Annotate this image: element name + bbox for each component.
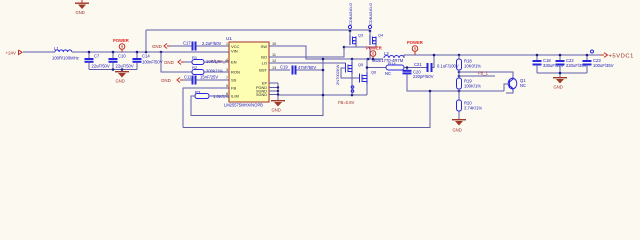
wire gnd to C17 bbox=[170, 45, 192, 47]
svg-text:11: 11 bbox=[272, 53, 276, 57]
wire C19 to SW node bbox=[296, 69, 323, 71]
capacitor C21 bbox=[414, 62, 459, 72]
wire L2 to output rail bbox=[404, 55, 600, 58]
svg-text:GND: GND bbox=[164, 60, 174, 65]
svg-text:C19: C19 bbox=[280, 65, 288, 70]
resistor R1 bbox=[192, 55, 233, 65]
svg-text:BO: BO bbox=[261, 55, 267, 60]
capacitor C7 bbox=[85, 52, 110, 70]
svg-text:VIN: VIN bbox=[231, 49, 238, 54]
port +24V bbox=[6, 50, 23, 55]
svg-text:BST: BST bbox=[259, 68, 267, 73]
capacitor C11 bbox=[184, 75, 218, 85]
transistor Q5 bbox=[346, 59, 364, 95]
svg-text:100R/100MHz: 100R/100MHz bbox=[52, 56, 79, 61]
svg-text:GND: GND bbox=[152, 44, 162, 49]
power port GND (SS cap) bbox=[161, 78, 183, 84]
svg-text:220pF/50V: 220pF/50V bbox=[413, 74, 434, 79]
svg-text:C10: C10 bbox=[118, 54, 126, 59]
svg-text:U1: U1 bbox=[226, 36, 232, 41]
capacitor C19 bbox=[280, 65, 316, 75]
svg-text:POWER: POWER bbox=[113, 38, 129, 43]
wire FB divider bottom loop bbox=[183, 91, 430, 128]
ground (R20) bbox=[452, 119, 466, 120]
resistor R2 bbox=[192, 65, 223, 75]
svg-text:LO: LO bbox=[262, 61, 267, 66]
svg-text:POWER: POWER bbox=[366, 46, 382, 51]
capacitor C18 bbox=[533, 55, 564, 73]
ground (floating top-left) bbox=[75, 0, 89, 15]
wire clamp bottoms bbox=[344, 46, 376, 48]
svg-text:POWER: POWER bbox=[407, 40, 423, 45]
inductor L1 bbox=[52, 46, 79, 61]
node marker (no-ERC) bbox=[591, 50, 594, 53]
node junctions center bbox=[277, 30, 372, 97]
wire gnd to R1 bbox=[184, 61, 192, 63]
resistor R3 bbox=[195, 90, 229, 99]
svg-text:FB=0.8V: FB=0.8V bbox=[338, 100, 355, 105]
transistor Q7 bbox=[508, 77, 526, 91]
transistor Q3 bbox=[350, 31, 363, 47]
power flag POWER (SW node) bbox=[366, 46, 382, 61]
svg-text:8: 8 bbox=[226, 92, 228, 96]
svg-text:GND: GND bbox=[272, 108, 281, 113]
svg-text:100uF/35V: 100uF/35V bbox=[593, 63, 614, 68]
svg-text:NC: NC bbox=[385, 71, 391, 76]
wire FB node to Q7 collector bbox=[459, 72, 513, 77]
svg-text:100nF/50V: 100nF/50V bbox=[142, 59, 163, 64]
wire BO pin bbox=[269, 47, 344, 57]
ground (input caps) bbox=[115, 71, 129, 72]
svg-text:CDBA540-G: CDBA540-G bbox=[368, 3, 373, 25]
svg-text:Q4: Q4 bbox=[378, 34, 383, 38]
svg-text:5: 5 bbox=[226, 84, 228, 88]
IC U1 LM25575 regulator bbox=[224, 36, 269, 107]
port +5VDC1 bbox=[600, 53, 634, 60]
svg-text:2N7002KW: 2N7002KW bbox=[335, 64, 340, 85]
svg-text:1: 1 bbox=[226, 42, 228, 46]
wire C21 to rail bbox=[432, 55, 434, 68]
svg-text:100K/1%: 100K/1% bbox=[464, 84, 481, 89]
svg-text:12: 12 bbox=[272, 59, 276, 63]
wire Q7 emitter bbox=[506, 91, 513, 93]
wire R3 to ILIM pin bbox=[209, 95, 229, 97]
wire R1 to EN pin bbox=[204, 61, 229, 63]
capacitor C22 bbox=[556, 55, 587, 73]
svg-text:C14: C14 bbox=[142, 54, 150, 59]
node junctions on input rail bbox=[88, 51, 163, 71]
svg-text:+24V: +24V bbox=[6, 50, 16, 55]
svg-text:Q3: Q3 bbox=[358, 34, 363, 38]
power flag POWER (input) bbox=[113, 38, 129, 52]
capacitor C10 bbox=[109, 52, 134, 70]
wire top clamp rail bbox=[146, 29, 370, 31]
svg-text:10: 10 bbox=[272, 42, 276, 46]
svg-text:Q5: Q5 bbox=[358, 63, 363, 67]
svg-text:GND: GND bbox=[161, 78, 171, 83]
wire input to L1 bbox=[23, 51, 55, 53]
svg-text:C21: C21 bbox=[414, 62, 422, 67]
capacitor C20 bbox=[403, 68, 505, 92]
wire C17 to VCC pin bbox=[196, 45, 229, 47]
svg-text:GND: GND bbox=[76, 10, 85, 15]
svg-text:SGND: SGND bbox=[256, 93, 267, 97]
svg-text:RON: RON bbox=[231, 70, 240, 75]
svg-text:NC: NC bbox=[520, 83, 526, 88]
wire output cap bottoms bbox=[537, 72, 587, 74]
svg-text:C7: C7 bbox=[94, 54, 100, 59]
svg-text:EN: EN bbox=[231, 60, 237, 65]
resistor R14 bbox=[367, 62, 404, 77]
power port GND (VCC bypass) bbox=[152, 44, 170, 50]
svg-text:GND: GND bbox=[453, 128, 462, 133]
svg-text:22uF/50V: 22uF/50V bbox=[116, 63, 134, 68]
wire input cap bottoms bbox=[89, 69, 137, 71]
wire SW node vertical bbox=[322, 59, 324, 116]
wire FB pin loop down bbox=[183, 88, 229, 128]
svg-text:C17: C17 bbox=[183, 41, 191, 46]
svg-text:R14: R14 bbox=[388, 62, 396, 67]
transistor Q6 bbox=[360, 59, 377, 95]
svg-text:C11: C11 bbox=[184, 75, 192, 80]
svg-text:FB: FB bbox=[231, 86, 236, 91]
svg-text:200K/1%: 200K/1% bbox=[206, 69, 223, 74]
svg-text:CDBA540-G: CDBA540-G bbox=[348, 3, 353, 25]
svg-text:Q6: Q6 bbox=[371, 71, 376, 75]
node junctions output rail bbox=[536, 54, 589, 75]
resistor R18 bbox=[457, 55, 482, 78]
svg-text:7: 7 bbox=[226, 76, 228, 80]
svg-text:10K0/1%: 10K0/1% bbox=[464, 64, 481, 69]
svg-text:GND: GND bbox=[554, 85, 563, 90]
capacitor C17 bbox=[183, 41, 222, 51]
ground (output caps) bbox=[553, 77, 567, 90]
wire riser to SW bbox=[369, 47, 371, 59]
svg-text:4: 4 bbox=[226, 58, 228, 62]
wire SW pin bbox=[269, 46, 383, 59]
transistor Q4 bbox=[370, 31, 383, 47]
svg-text:22uF/50V: 22uF/50V bbox=[92, 63, 110, 68]
svg-text:15nF/25V: 15nF/25V bbox=[200, 75, 218, 80]
wire LO pin bbox=[269, 62, 346, 64]
wire Q5 gate bbox=[341, 68, 359, 78]
svg-text:GND: GND bbox=[116, 79, 125, 84]
wire VIN riser to R2 bbox=[161, 52, 192, 72]
wire R2 to RON pin bbox=[204, 71, 229, 73]
svg-text:3: 3 bbox=[226, 68, 228, 72]
capacitor C14 bbox=[133, 52, 163, 70]
svg-text:3.74K/1%: 3.74K/1% bbox=[464, 106, 482, 111]
power flag POWER (output) bbox=[407, 40, 423, 55]
svg-text:2.2uF/50V: 2.2uF/50V bbox=[202, 41, 222, 46]
capacitor C23 bbox=[583, 55, 614, 73]
wire BST pin bbox=[269, 69, 290, 71]
svg-text:13: 13 bbox=[272, 66, 276, 70]
svg-text:LM25575MHX/NOPB: LM25575MHX/NOPB bbox=[224, 102, 263, 107]
wire R14 to C21 bbox=[404, 67, 427, 69]
wire FB stub bbox=[459, 75, 495, 77]
wire VIN rail riser to top clamp rail bbox=[145, 30, 147, 52]
ground (PGND) bbox=[271, 97, 285, 113]
resistor R20 bbox=[457, 100, 483, 119]
svg-text:ILIM: ILIM bbox=[231, 94, 239, 99]
wire gnd to C11 bbox=[183, 79, 192, 81]
wire R3 left lead down bbox=[191, 96, 323, 116]
resistor R19 bbox=[457, 78, 482, 100]
wire PGND to sense bbox=[278, 94, 367, 96]
node marker pair bbox=[351, 86, 354, 89]
wire PGND pins bbox=[269, 83, 278, 97]
svg-text:FB_1: FB_1 bbox=[478, 71, 489, 76]
svg-text:+5VDC1: +5VDC1 bbox=[609, 53, 634, 59]
inductor L2 bbox=[372, 51, 404, 63]
svg-text:0.1uF/100V: 0.1uF/100V bbox=[437, 64, 459, 69]
wire C11 to SS pin bbox=[196, 79, 229, 81]
node junctions right bbox=[366, 54, 461, 93]
svg-text:SS: SS bbox=[231, 78, 237, 83]
svg-text:EP: EP bbox=[262, 81, 268, 85]
svg-text:SW: SW bbox=[261, 44, 268, 49]
svg-text:47nF/50V: 47nF/50V bbox=[298, 65, 316, 70]
wire Q7 base bbox=[504, 84, 509, 91]
power port GND (EN resistor) bbox=[164, 60, 184, 66]
wire L1 to VIN pin bbox=[72, 51, 229, 53]
